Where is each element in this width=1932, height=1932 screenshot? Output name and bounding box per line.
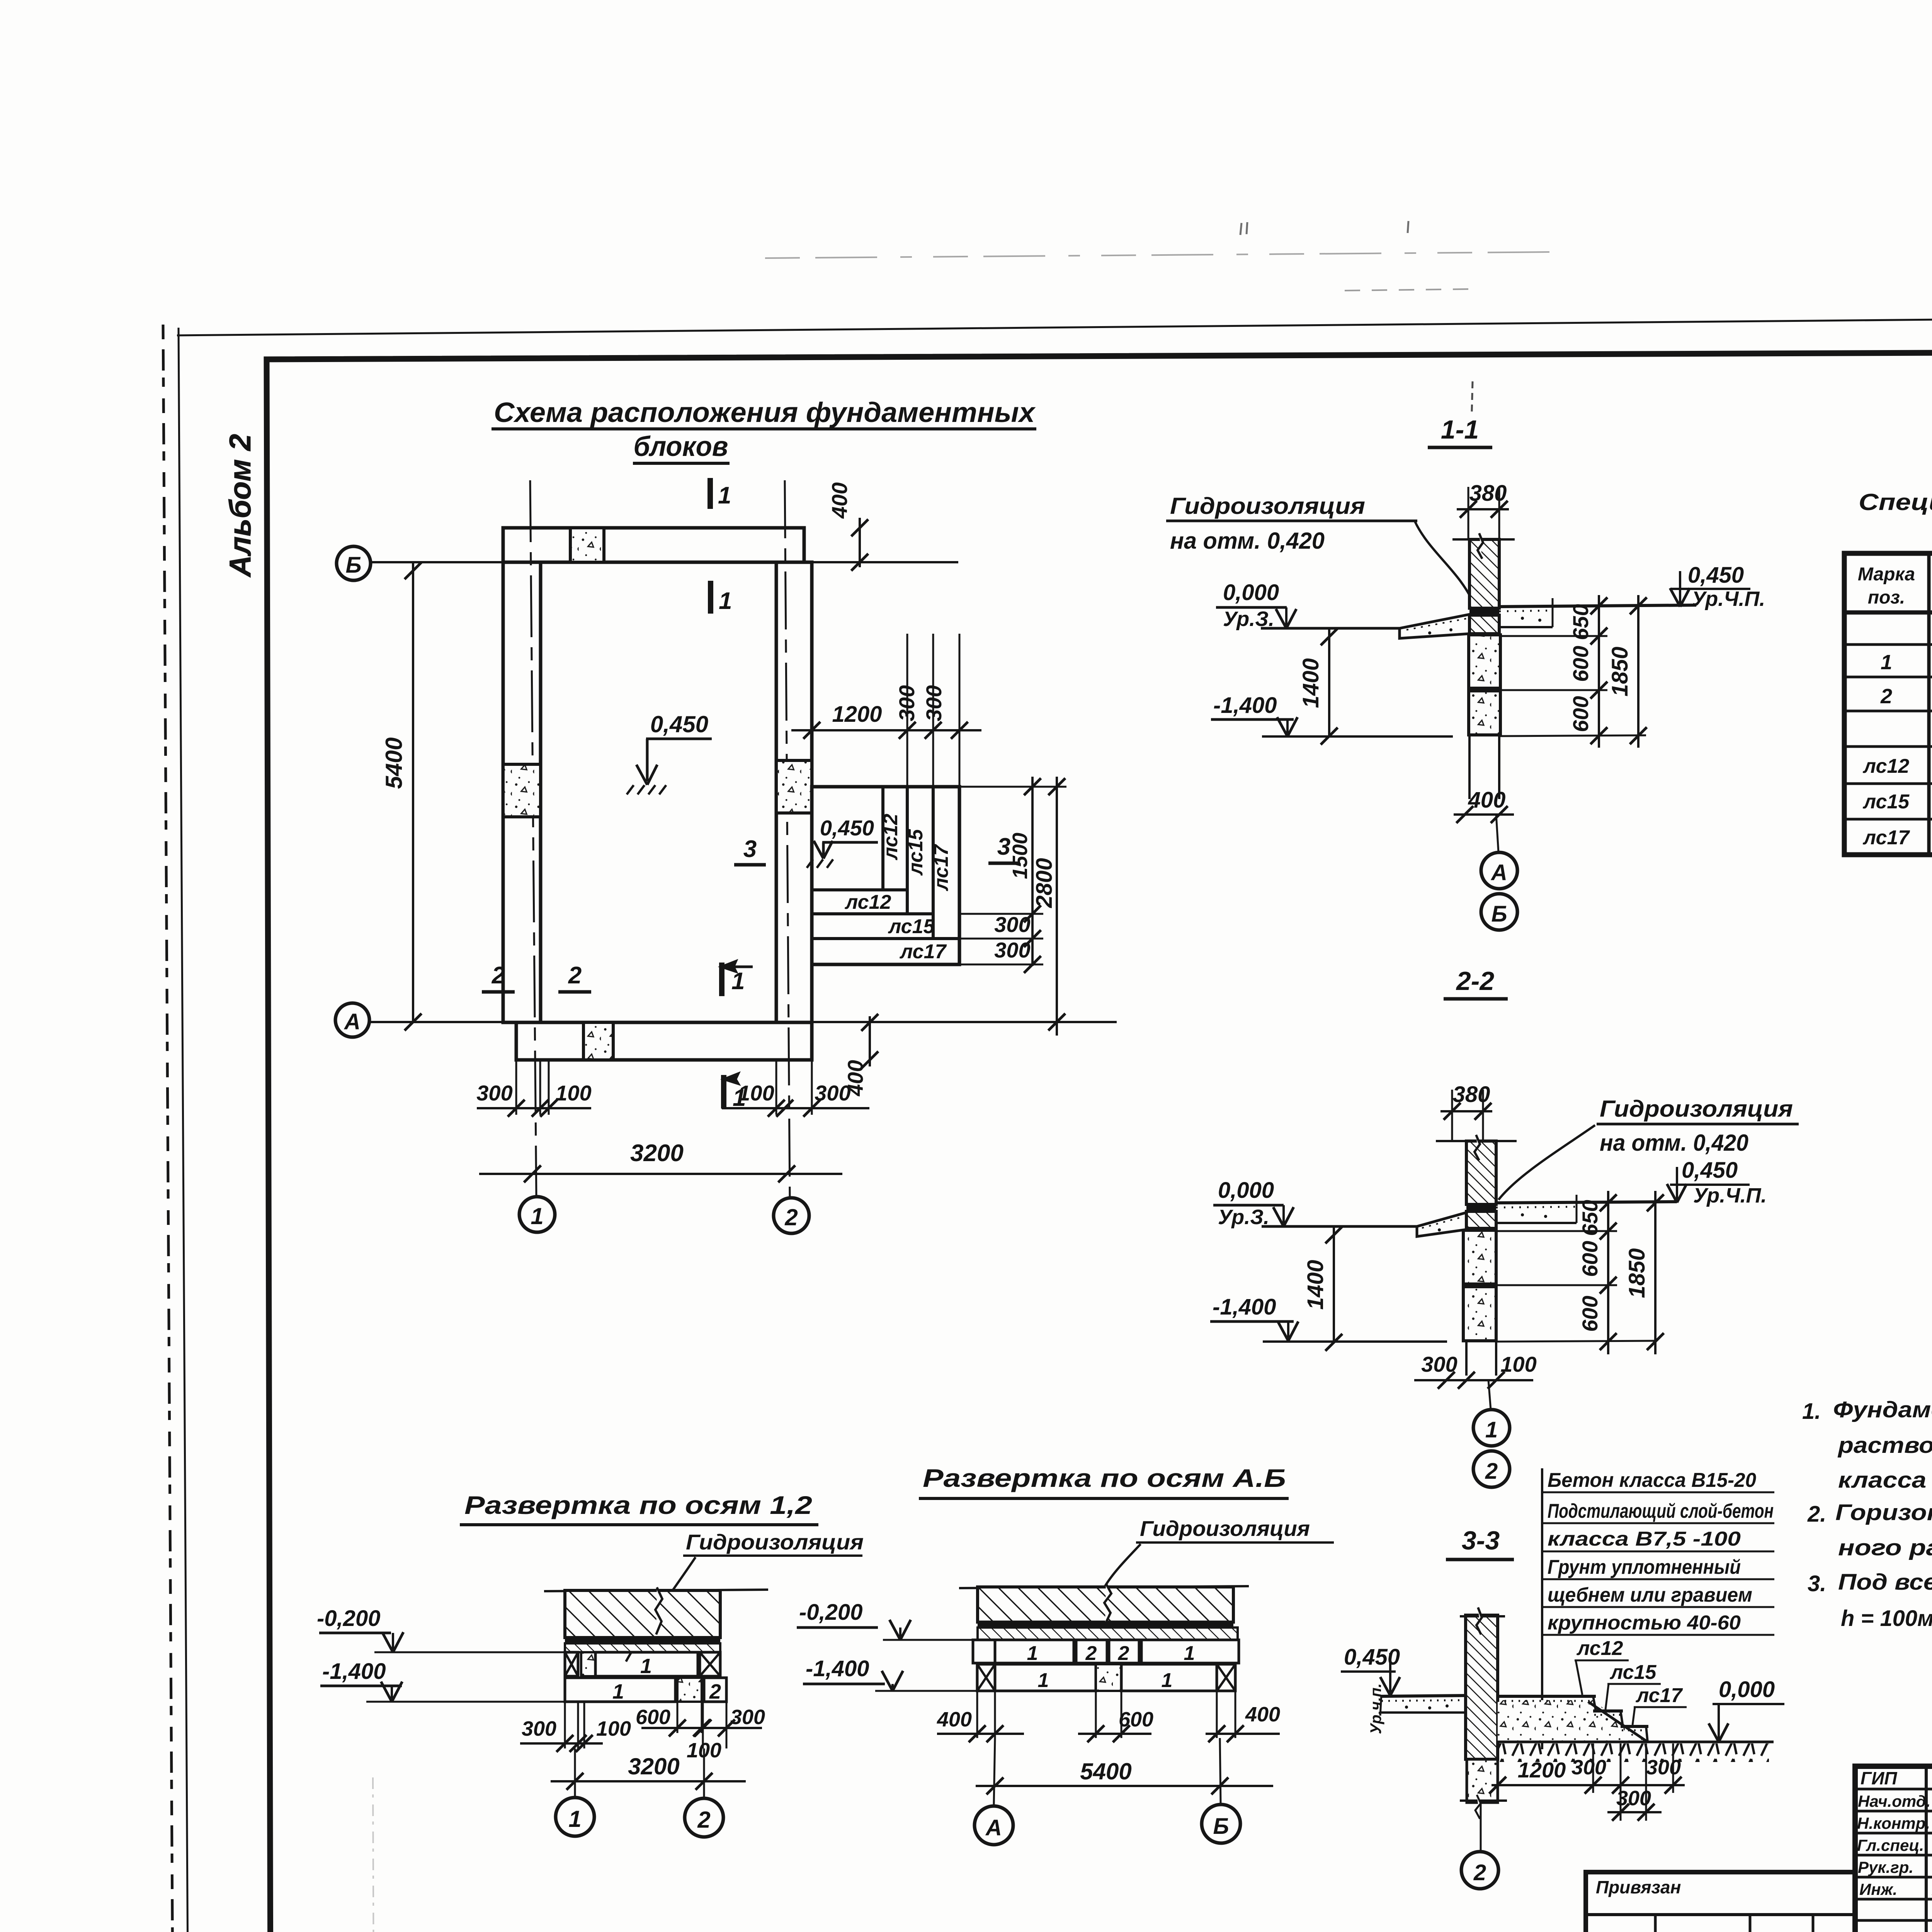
svg-text:лс15: лс15: [1609, 1661, 1657, 1684]
svg-text:на отм. 0,420: на отм. 0,420: [1600, 1130, 1748, 1156]
leader: [1104, 1544, 1141, 1587]
circle 2: [1461, 1852, 1498, 1889]
svg-text:300: 300: [994, 938, 1030, 962]
step tread ЛС15: [1593, 1709, 1623, 1713]
wall section hatched: [1469, 539, 1499, 608]
spec header bottom: [1844, 611, 1932, 615]
dim 3200 bottom: [479, 1173, 842, 1175]
svg-text:Развертка по осям 1,2: Развертка по осям 1,2: [464, 1491, 812, 1519]
section mark 1 bottom inner with arrow: [719, 963, 724, 996]
svg-text:0,000: 0,000: [1218, 1178, 1274, 1203]
circle Б: [1202, 1804, 1240, 1843]
foundation block below wall: [1467, 1759, 1498, 1803]
spec table frame: [1844, 553, 1932, 855]
svg-text:Гидроизоляция: Гидроизоляция: [1600, 1096, 1793, 1122]
svg-text:600: 600: [1119, 1708, 1153, 1731]
svg-text:0,000: 0,000: [1719, 1677, 1775, 1702]
section mark 1 top inner: [708, 581, 713, 614]
grid circle 2: [774, 1198, 809, 1233]
signature table verticals: [1925, 1766, 1928, 1932]
svg-text:3-3: 3-3: [1462, 1526, 1500, 1555]
svg-text:1: 1: [531, 1203, 543, 1229]
dim 1500 stair right: [959, 786, 1066, 788]
dims below: 1200 300 300: [1497, 1759, 1499, 1793]
svg-text:1200: 1200: [832, 702, 882, 727]
stair footprint outer: [812, 787, 959, 964]
svg-text:Гидроизоляция: Гидроизоляция: [1140, 1516, 1310, 1541]
svg-text:2: 2: [1085, 1642, 1097, 1665]
svg-text:2800: 2800: [1032, 858, 1057, 908]
svg-text:2: 2: [492, 962, 505, 989]
svg-text:класса В7,5 -100: класса В7,5 -100: [1548, 1528, 1741, 1550]
faint tick marks: [1240, 222, 1247, 235]
row2: X-box left: [977, 1664, 995, 1691]
svg-text:Ур.Ч.П.: Ур.Ч.П.: [1692, 587, 1765, 611]
row2: block 1: [565, 1678, 675, 1702]
wall top break line: [1436, 1140, 1517, 1142]
svg-text:2: 2: [1485, 1459, 1498, 1484]
floor slab right: [1496, 1202, 1677, 1203]
stair step lines horizontal: [812, 888, 907, 891]
svg-text:Бетон класса В15-20: Бетон класса В15-20: [1548, 1469, 1756, 1492]
svg-text:1-1: 1-1: [1441, 415, 1479, 444]
svg-text:3200: 3200: [628, 1753, 679, 1779]
svg-text:400: 400: [1245, 1703, 1280, 1726]
grid circle А: [335, 1003, 369, 1037]
break squiggle in hatch: [1104, 1583, 1111, 1624]
axis А line: [369, 1021, 1117, 1023]
svg-text:лс17: лс17: [1635, 1684, 1683, 1707]
svg-text:h = 100мм.: h = 100мм.: [1841, 1606, 1932, 1631]
svg-text:А: А: [985, 1815, 1002, 1840]
wall sides below: [1465, 1341, 1468, 1376]
foundation block 1: [1463, 1230, 1496, 1284]
svg-text:300: 300: [476, 1081, 512, 1105]
svg-text:2-2: 2-2: [1456, 966, 1494, 996]
svg-text:Спецификация к схеме располо: Спецификация к схеме расположения фундам…: [1859, 489, 1932, 515]
svg-text:Н.контр.: Н.контр.: [1857, 1814, 1930, 1832]
signature table rows: [1855, 1788, 1932, 1791]
svg-text:Гидроизоляция: Гидроизоляция: [1170, 493, 1365, 519]
leader to wall: [1415, 522, 1474, 605]
svg-text:5400: 5400: [1080, 1759, 1131, 1784]
row1: X-box right: [700, 1652, 720, 1676]
wall bottom break: [1460, 1799, 1507, 1802]
svg-text:1500: 1500: [1009, 833, 1032, 879]
svg-text:Ур.ч.п.: Ур.ч.п.: [1367, 1683, 1384, 1734]
wall top break: [1460, 1615, 1505, 1617]
axis line to circles: [1496, 815, 1498, 852]
faint smudge line top: [765, 252, 1557, 258]
wall below dpc: [1469, 615, 1499, 634]
left scan edge dashed line: [163, 325, 173, 1932]
circle А: [1481, 852, 1517, 889]
svg-text:лс12: лс12: [1576, 1637, 1623, 1660]
svg-text:Ур.Ч.П.: Ур.Ч.П.: [1693, 1184, 1767, 1207]
svg-text:1: 1: [718, 482, 731, 509]
svg-text:лс17: лс17: [899, 940, 947, 963]
circle А: [975, 1806, 1013, 1845]
dim 1200 stair top: [811, 719, 813, 787]
svg-text:1: 1: [640, 1655, 652, 1678]
svg-text:400: 400: [1468, 787, 1506, 813]
svg-text:блоков: блоков: [634, 431, 728, 462]
foundation block 2: [1463, 1287, 1496, 1341]
svg-text:Горизонтальную изоляцию выпо: Горизонтальную изоляцию выполнять из цем…: [1835, 1500, 1932, 1525]
row1: X-box left: [565, 1652, 578, 1676]
svg-text:2: 2: [784, 1204, 798, 1230]
wall sides below: [1468, 735, 1471, 799]
svg-text:лс15: лс15: [905, 829, 927, 876]
svg-text:-1,400: -1,400: [1213, 693, 1277, 718]
ground line: [1498, 1741, 1774, 1743]
svg-text:600: 600: [1578, 1241, 1602, 1277]
dim 5400 left: [412, 562, 414, 1022]
svg-text:1: 1: [1162, 1669, 1173, 1692]
svg-text:Привязан: Привязан: [1596, 1877, 1681, 1897]
top thin sheet border: [177, 314, 1932, 335]
bottom wall mortar block: [583, 1022, 613, 1060]
row2: X-box right: [1217, 1664, 1235, 1691]
row2: block 2: [704, 1678, 726, 1702]
svg-text:300: 300: [1571, 1756, 1606, 1779]
svg-text:лс17: лс17: [930, 844, 952, 892]
dim 2800 far right: [1056, 777, 1058, 1036]
floor slab left: [1381, 1696, 1466, 1696]
dim 1850 right: [1637, 595, 1639, 748]
axis 1 line: [530, 480, 536, 1197]
svg-text:400: 400: [843, 1060, 867, 1096]
svg-text:1.: 1.: [1802, 1399, 1821, 1424]
floor wedge left: [1400, 614, 1469, 638]
svg-text:растворе М50. Промежутки за: растворе М50. Промежутки заполнять бетон…: [1837, 1433, 1932, 1458]
svg-text:100: 100: [555, 1081, 591, 1105]
svg-text:100: 100: [738, 1081, 774, 1105]
top wall band: [503, 528, 804, 562]
svg-text:1: 1: [1027, 1642, 1038, 1665]
thin hatch band: [978, 1628, 1238, 1640]
circle Б: [1481, 894, 1517, 930]
break squiggle in hatch: [655, 1587, 662, 1634]
right dims 650 600 600: [1496, 1202, 1655, 1203]
fold crease: [373, 1777, 374, 1932]
svg-text:Марка: Марка: [1858, 564, 1915, 585]
svg-text:300: 300: [922, 685, 946, 721]
dim 400 bottom right: [869, 1016, 871, 1066]
svg-text:Подстилающий слой-бетон: Подстилающий слой-бетон: [1548, 1500, 1774, 1522]
svg-text:600: 600: [1568, 646, 1593, 682]
svg-text:-0,200: -0,200: [799, 1600, 862, 1625]
extension lines below: [976, 1691, 978, 1738]
dpc thick band: [565, 1638, 720, 1643]
wall section hatched: [1466, 1615, 1498, 1759]
svg-text:щебнем или гравием: щебнем или гравием: [1548, 1584, 1752, 1606]
faint smudge dashes: [1345, 289, 1473, 291]
dpc thick band: [978, 1622, 1233, 1628]
svg-text:0,450: 0,450: [650, 711, 708, 737]
left wall mortar block: [503, 764, 541, 817]
row1: block 2b: [1109, 1640, 1139, 1663]
axis 2 line: [785, 480, 790, 1197]
svg-text:1: 1: [1485, 1417, 1498, 1442]
svg-text:2: 2: [1118, 1642, 1129, 1665]
svg-text:поз.: поз.: [1868, 587, 1905, 608]
svg-text:1: 1: [1881, 651, 1892, 674]
svg-text:300: 300: [895, 685, 919, 721]
step tread ЛС12: [1498, 1695, 1596, 1698]
svg-text:1850: 1850: [1607, 646, 1633, 696]
foundation block 2: [1469, 691, 1500, 735]
right wall mortar block: [776, 760, 812, 813]
svg-text:3.: 3.: [1808, 1571, 1826, 1596]
svg-text:ГИП: ГИП: [1861, 1768, 1897, 1788]
svg-text:класса В10.: класса В10.: [1838, 1468, 1932, 1493]
svg-text:крупностью 40-60: крупностью 40-60: [1548, 1612, 1741, 1634]
svg-text:0,450: 0,450: [1344, 1645, 1400, 1670]
row1: mortar block: [581, 1652, 595, 1676]
dim 300 stair right lower: [959, 964, 1043, 966]
section mark 1 top outer: [707, 478, 713, 509]
svg-text:Альбом 2: Альбом 2: [223, 434, 257, 578]
dim 1400 left: [1328, 628, 1330, 736]
svg-text:300: 300: [730, 1706, 765, 1729]
dim 1850 right: [1654, 1191, 1656, 1354]
svg-text:лс12: лс12: [879, 814, 902, 861]
svg-text:650: 650: [1568, 604, 1593, 640]
wall below dpc: [1466, 1211, 1496, 1228]
leader: [626, 1557, 696, 1662]
svg-text:1400: 1400: [1303, 1260, 1328, 1310]
svg-text:Б: Б: [345, 553, 361, 578]
stair step lines vertical: [881, 787, 884, 890]
left thin sheet border: [179, 328, 188, 1932]
svg-text:1850: 1850: [1624, 1248, 1650, 1298]
svg-text:Гидроизоляция: Гидроизоляция: [686, 1530, 864, 1554]
axis line to circles: [1488, 1380, 1491, 1410]
svg-text:2: 2: [568, 962, 582, 989]
level line -1,400: [1263, 1340, 1447, 1343]
svg-text:650: 650: [1578, 1200, 1602, 1236]
floor slab right: [1499, 605, 1696, 607]
svg-text:ного раствора состава 1: 2.: ного раствора состава 1: 2.: [1838, 1535, 1932, 1560]
svg-text:Фундаментные блоки укладыват: Фундаментные блоки укладывать на цементн…: [1833, 1397, 1932, 1422]
svg-text:лс15: лс15: [1862, 791, 1910, 813]
svg-text:Ур.З.: Ур.З.: [1223, 607, 1274, 631]
svg-text:400: 400: [827, 482, 852, 519]
svg-text:лс12: лс12: [1862, 755, 1910, 777]
axis line to circle: [1480, 1803, 1482, 1852]
stray dashed mark above 1-1: [1472, 381, 1473, 412]
svg-text:400: 400: [937, 1708, 972, 1731]
section mark 1 bottom outer: [721, 1075, 726, 1109]
svg-text:1400: 1400: [1298, 658, 1323, 708]
svg-text:А: А: [1490, 860, 1507, 885]
ground line left: [1262, 1225, 1417, 1228]
damp proof course band: [1469, 608, 1499, 615]
circle 1: [556, 1798, 594, 1836]
svg-text:0,450: 0,450: [820, 816, 874, 840]
row1: block 1: [995, 1640, 1074, 1663]
svg-text:Развертка по осям А.Б: Развертка по осям А.Б: [923, 1464, 1286, 1492]
axis lines to circles: [574, 1748, 576, 1797]
svg-text:1: 1: [719, 588, 732, 614]
svg-text:Нач.отд.: Нач.отд.: [1858, 1792, 1930, 1810]
svg-text:1: 1: [731, 968, 745, 995]
step underside diagonal: [1588, 1702, 1648, 1742]
svg-text:1200: 1200: [1518, 1758, 1566, 1782]
row2: mortar block: [677, 1678, 702, 1702]
svg-text:Инж.: Инж.: [1859, 1880, 1897, 1898]
svg-text:2.: 2.: [1807, 1502, 1826, 1527]
dim 100 300 bottom right: [776, 1060, 777, 1115]
leader to wall: [1498, 1125, 1595, 1200]
left wall band: [503, 562, 541, 1022]
row2: block 1b: [1121, 1664, 1217, 1691]
svg-text:3200: 3200: [630, 1140, 684, 1167]
level line -1,400: [1262, 735, 1453, 738]
svg-text:на отм. 0,420: на отм. 0,420: [1170, 528, 1325, 554]
svg-text:100: 100: [1500, 1352, 1536, 1376]
dim 1400 left: [1333, 1226, 1335, 1342]
svg-text:0,000: 0,000: [1223, 580, 1279, 605]
title block outer frame: [1855, 1766, 1932, 1932]
circle 2: [685, 1798, 723, 1837]
svg-text:лс12: лс12: [844, 891, 891, 913]
svg-text:1: 1: [612, 1680, 624, 1703]
svg-text:Б: Б: [1213, 1814, 1229, 1839]
svg-text:600: 600: [1568, 696, 1593, 732]
svg-text:Б: Б: [1491, 901, 1507, 927]
grid circle 1: [519, 1197, 555, 1232]
svg-text:лс15: лс15: [888, 915, 935, 938]
ground line left: [1261, 627, 1400, 630]
svg-text:-0,200: -0,200: [317, 1606, 380, 1631]
spec column lines: [1927, 553, 1931, 855]
row1: block 1b: [1141, 1640, 1239, 1663]
right dims 650 600 600: [1499, 605, 1646, 607]
left attachment table: [1586, 1872, 1855, 1932]
spec row lines: [1844, 643, 1932, 646]
right wall band: [776, 562, 812, 1022]
layer note leader line: [1541, 1468, 1543, 1749]
wall section hatched: [1466, 1141, 1496, 1204]
svg-text:Рук.гр.: Рук.гр.: [1858, 1858, 1913, 1876]
svg-text:Схема расположения фундаментны: Схема расположения фундаментных: [494, 397, 1036, 428]
row1 blocks: end stub: [973, 1640, 995, 1663]
svg-text:0,450: 0,450: [1682, 1158, 1738, 1183]
svg-text:Под все фундаменты сделать: Под все фундаменты сделать песчаную подг…: [1838, 1570, 1932, 1595]
svg-text:А: А: [344, 1009, 361, 1034]
wall hatched block: [978, 1587, 1233, 1622]
step tread ЛС17: [1621, 1725, 1648, 1728]
svg-text:2: 2: [709, 1680, 721, 1703]
svg-text:лс17: лс17: [1862, 827, 1910, 849]
foundation block 1: [1469, 635, 1500, 688]
svg-text:300: 300: [1646, 1756, 1681, 1779]
ground hatching: [1498, 1743, 1769, 1762]
floor wedge left: [1417, 1213, 1466, 1236]
wall top break line: [1452, 538, 1515, 541]
floor top line: [959, 1586, 1249, 1588]
dim 300 100 bottom left: [515, 1060, 517, 1115]
svg-text:1: 1: [568, 1806, 581, 1832]
svg-text:1: 1: [1184, 1642, 1195, 1665]
svg-text:1: 1: [1038, 1669, 1049, 1692]
thin hatch band: [565, 1643, 720, 1652]
grid circle Б: [337, 546, 371, 580]
wall hatched block: [565, 1590, 720, 1638]
row2: mortar block: [1096, 1664, 1121, 1691]
svg-text:300: 300: [522, 1717, 556, 1740]
svg-text:100: 100: [596, 1717, 631, 1740]
row2: block 1: [995, 1664, 1096, 1691]
svg-text:5400: 5400: [381, 737, 407, 789]
svg-text:Грунт уплотненный: Грунт уплотненный: [1548, 1556, 1741, 1578]
landing and steps body speckled: [1498, 1700, 1646, 1742]
row1: block 2: [1076, 1640, 1107, 1663]
bottom wall band: [516, 1022, 812, 1060]
svg-text:Гл.спец.: Гл.спец.: [1857, 1836, 1924, 1854]
svg-text:300: 300: [1616, 1787, 1651, 1810]
floor top line: [544, 1590, 768, 1591]
svg-text:3: 3: [743, 836, 757, 862]
axis lines to circles: [994, 1738, 995, 1805]
circle 1: [1473, 1410, 1510, 1446]
svg-text:600: 600: [1578, 1296, 1602, 1332]
damp proof course band: [1466, 1204, 1496, 1211]
svg-text:-1,400: -1,400: [806, 1656, 869, 1681]
svg-text:2: 2: [1880, 685, 1892, 708]
svg-text:300: 300: [994, 912, 1030, 937]
svg-text:2: 2: [1473, 1860, 1486, 1885]
top wall mortar block: [570, 528, 604, 562]
main thick frame: [267, 350, 1932, 1932]
axis Б line: [370, 561, 958, 563]
svg-text:Ур.З.: Ур.З.: [1218, 1206, 1269, 1229]
svg-text:600: 600: [636, 1706, 670, 1729]
extension lines below: [564, 1702, 566, 1748]
svg-text:-1,400: -1,400: [1213, 1294, 1276, 1320]
svg-text:-1,400: -1,400: [322, 1659, 386, 1684]
circle 2: [1473, 1451, 1510, 1487]
svg-text:0,450: 0,450: [1688, 563, 1744, 588]
svg-text:2: 2: [697, 1807, 710, 1833]
row1: block 1: [595, 1652, 698, 1676]
dim 300 stair right upper: [959, 938, 1043, 940]
